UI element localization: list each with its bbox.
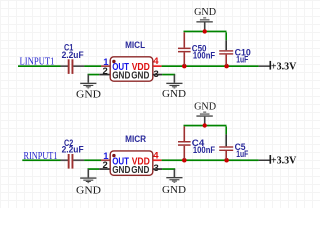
value 2.2uF <box>62 50 84 61</box>
svg-text:100nF: 100nF <box>193 145 215 156</box>
pin name GND left MICR <box>112 165 130 176</box>
svg-text:GND: GND <box>162 88 186 100</box>
svg-text:GND: GND <box>131 71 149 82</box>
pin name OUT MICR <box>112 156 129 167</box>
svg-text:GND: GND <box>112 165 130 176</box>
ground symbol below pin2 <box>80 75 96 89</box>
wire 3.3V rail top <box>162 65 259 67</box>
svg-text:GND: GND <box>194 6 216 18</box>
svg-text:2.2uF: 2.2uF <box>62 144 84 155</box>
pin 4 lead MICR <box>153 159 162 161</box>
svg-text:1uF: 1uF <box>236 54 248 65</box>
pin1 marker dot MICL <box>112 60 115 63</box>
power port 3.3V top <box>259 61 272 70</box>
value 1uF <box>236 54 248 65</box>
svg-text:GND: GND <box>194 100 216 112</box>
label C5 <box>235 142 247 153</box>
GND label left bottom <box>76 184 101 196</box>
svg-text:GND: GND <box>76 184 101 196</box>
pin number 2 <box>103 66 108 77</box>
wire C1 to pin1 <box>84 65 101 67</box>
pin number 3 <box>154 69 159 80</box>
label +3.3V top <box>271 62 297 73</box>
wire 3.3V rail bottom <box>162 159 259 161</box>
capacitor C50 <box>178 32 191 65</box>
pin 2 lead MICL <box>99 74 110 76</box>
pin 1 lead MICL <box>101 65 110 67</box>
label C2 <box>64 138 73 149</box>
svg-text:2: 2 <box>103 160 108 171</box>
label C50 <box>192 44 207 55</box>
junction C4 rail <box>182 158 187 163</box>
svg-text:+3.3V: +3.3V <box>271 156 297 167</box>
svg-text:GND: GND <box>131 165 149 176</box>
ground symbol below pin3 MICR <box>166 169 182 183</box>
svg-text:2.2uF: 2.2uF <box>62 50 84 61</box>
label +3.3V bottom <box>271 156 297 167</box>
wire pin3 to ground MICR <box>162 168 175 170</box>
GND label right bottom <box>162 184 186 196</box>
capacitor C4 <box>178 126 191 159</box>
GND label right top <box>162 88 186 100</box>
svg-text:MICL: MICL <box>125 40 145 51</box>
svg-text:1uF: 1uF <box>236 149 248 160</box>
pin number 4 MICR <box>153 150 159 161</box>
pin name GND right <box>131 71 149 82</box>
wire pin2 to ground MICR <box>88 168 100 170</box>
pin number 1 MICR <box>103 151 109 162</box>
label C10 <box>235 48 251 59</box>
svg-text:MICR: MICR <box>125 134 146 145</box>
net label RINPUT1 <box>24 150 58 162</box>
value 1uF C5 <box>236 149 248 160</box>
wire ground bus bottom <box>184 125 227 127</box>
wire RINPUT1 to C2 <box>22 159 60 161</box>
junction C50 rail <box>182 64 187 69</box>
pin number 4 <box>153 56 159 67</box>
junction C10 rail <box>224 64 229 69</box>
pin 3 lead MICL <box>153 74 162 76</box>
svg-text:GND: GND <box>76 88 101 100</box>
value 100nF <box>193 51 215 62</box>
pin name VDD MICR <box>132 156 150 167</box>
junction ground bus bottom <box>203 123 207 127</box>
capacitor C10 <box>219 32 233 65</box>
pin 2 lead MICR <box>99 168 110 170</box>
pin number 1 <box>103 57 109 68</box>
ground symbol top middle inverted <box>196 17 212 30</box>
pin 3 lead MICR <box>153 168 162 170</box>
designator MICR <box>125 134 146 145</box>
capacitor C2 <box>61 154 85 169</box>
ground symbol below pin3 <box>166 75 182 89</box>
pin name VDD <box>132 62 150 73</box>
GND label top middle <box>194 6 216 18</box>
capacitor C1 <box>61 59 85 74</box>
power port 3.3V bottom <box>259 155 272 164</box>
component MICR box <box>110 151 153 175</box>
junction ground bus top <box>203 29 207 33</box>
ground symbol bottom middle inverted <box>196 112 212 125</box>
svg-text:2: 2 <box>103 66 108 77</box>
junction C5 rail <box>224 158 229 163</box>
wire ground bus top <box>184 31 227 33</box>
label C1 <box>64 43 74 54</box>
pin number 3 MICR <box>154 163 159 174</box>
label C4 <box>192 138 205 149</box>
value 2.2uF C2 <box>62 144 84 155</box>
net label LINPUT1 <box>20 55 55 67</box>
GND label left top <box>76 88 101 100</box>
pin name OUT <box>112 62 129 73</box>
wire C2 to pin1 <box>84 159 101 161</box>
pin number 2 MICR <box>103 160 108 171</box>
component MICL box <box>110 57 153 81</box>
pin1 marker dot MICR <box>112 154 115 157</box>
svg-text:+3.3V: +3.3V <box>271 62 297 73</box>
svg-text:GND: GND <box>112 71 130 82</box>
capacitor C5 <box>219 126 233 159</box>
value 100nF C4 <box>193 145 215 156</box>
designator MICL <box>125 40 145 51</box>
wire pin2 to ground <box>88 74 100 76</box>
wire LINPUT1 to C1 <box>18 65 61 67</box>
pin name GND left <box>112 71 130 82</box>
ground symbol below pin2 MICR <box>80 169 96 183</box>
svg-text:GND: GND <box>162 184 186 196</box>
pin 1 lead MICR <box>101 159 110 161</box>
pin name GND right MICR <box>131 165 149 176</box>
GND label bottom middle <box>194 100 216 112</box>
svg-text:100nF: 100nF <box>193 51 215 62</box>
pin 4 lead MICL <box>153 65 162 67</box>
wire pin3 to ground <box>162 74 175 76</box>
